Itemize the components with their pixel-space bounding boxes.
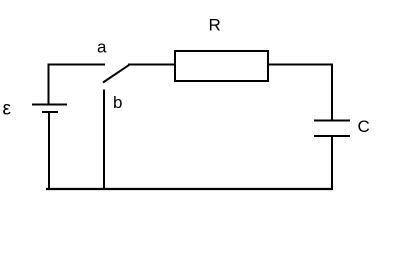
svg-text:b: b [113, 93, 122, 112]
wire right vertical down to capacitor [331, 64, 333, 122]
switch S1 arm (thrown toward b) [103, 65, 129, 83]
wire bottom return [46, 188, 333, 190]
wire capacitor bottom lead [331, 136, 333, 190]
resistor R body [175, 51, 268, 81]
capacitor C bottom plate [314, 135, 350, 137]
svg-text:ε: ε [3, 99, 12, 120]
battery V1 short plate [42, 111, 58, 113]
wire battery positive lead (vertical) [48, 64, 50, 104]
battery V1 long plate [32, 104, 67, 106]
wire contact b vertical [103, 90, 105, 191]
wire resistor right to top-right corner [268, 64, 333, 66]
wire switch to resistor left [128, 64, 175, 66]
wire battery negative lead (vertical) [48, 112, 50, 190]
svg-text:R: R [209, 16, 221, 35]
wire top-left horizontal to switch contact a [48, 64, 106, 66]
svg-text:a: a [97, 38, 107, 57]
capacitor C top plate [314, 120, 350, 122]
svg-text:C: C [358, 117, 370, 136]
